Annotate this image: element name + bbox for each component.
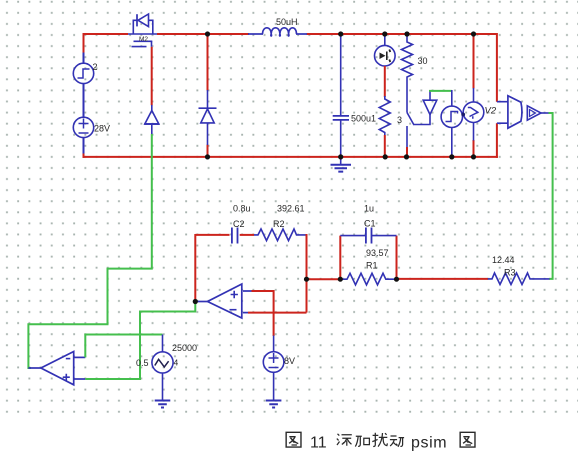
junction dots top rail: [205, 31, 476, 36]
wire carrier to -in (green): [85, 335, 162, 358]
wire gate drive (green): [28, 134, 151, 368]
diode D1 (freewheel): [207, 34, 209, 158]
carrier source 0.5/25000: [152, 335, 173, 400]
switch S1: [407, 80, 414, 148]
on-off switch controller U2: [414, 91, 437, 125]
svg-text:93.57: 93.57: [366, 248, 389, 258]
svg-text:1u: 1u: [364, 204, 374, 214]
current source I2 (disturbance): [473, 34, 475, 158]
op-amp U4 (comparator): [28, 352, 85, 385]
wire junction to R1C1 (red): [307, 278, 341, 280]
wire top rail (red): [84, 33, 497, 35]
wire bottom rail (red): [83, 156, 498, 158]
ground (carrier): [155, 401, 171, 408]
svg-text:R3: R3: [504, 268, 516, 278]
svg-text:392.61: 392.61: [277, 204, 305, 214]
ground (output): [331, 157, 352, 172]
current sensor A1: [375, 34, 396, 66]
voltage sensor V2: [497, 96, 522, 129]
svg-text:V2: V2: [485, 106, 497, 117]
wire U2 gating (green): [429, 90, 452, 92]
svg-text:M2: M2: [139, 36, 148, 43]
svg-text:25000: 25000: [172, 343, 197, 353]
capacitor 500u1: [333, 34, 349, 157]
svg-text:500u1: 500u1: [351, 114, 376, 124]
svg-text:12.44: 12.44: [492, 255, 515, 265]
svg-text:28V: 28V: [94, 124, 110, 134]
svg-text:8V: 8V: [284, 356, 295, 366]
svg-text:4: 4: [174, 358, 179, 368]
wire -in to node (red): [248, 312, 307, 314]
on-off switch controller U1: [144, 105, 159, 134]
wire +in to 8V (red): [252, 291, 274, 336]
svg-text:2: 2: [93, 62, 98, 72]
wire gate (red): [151, 47, 153, 106]
dc source 8V: [263, 336, 284, 400]
svg-text:50uH: 50uH: [276, 17, 298, 27]
capacitor C1 1u: [340, 236, 396, 280]
wire left branch: [83, 33, 85, 158]
wire PI out to +in (green): [85, 302, 195, 380]
svg-text:30: 30: [418, 56, 428, 66]
junction dots bottom rail: [205, 154, 476, 159]
svg-text:R1: R1: [366, 261, 378, 271]
svg-text:C2: C2: [233, 219, 245, 229]
svg-text:11: 11: [310, 435, 327, 452]
resistor R1 93.57: [340, 273, 396, 285]
node V3-I2 touch: [461, 113, 465, 117]
wire feedback right (red): [306, 234, 308, 313]
resistor R2 392.61: [254, 229, 307, 241]
square-wave source V3 (load gating): [441, 90, 462, 157]
MOSFET M2: [128, 14, 157, 47]
svg-text:0.5: 0.5: [136, 358, 149, 368]
inductor L1: [248, 28, 307, 36]
capacitor C2 0.8u: [195, 234, 229, 236]
op-amp U3 (PI): [195, 284, 251, 318]
svg-text:0.8u: 0.8u: [233, 204, 251, 214]
svg-text:3: 3: [397, 115, 402, 125]
gain block: [527, 106, 548, 120]
dc source 28V: [73, 117, 93, 137]
resistor 3 (load): [379, 96, 390, 135]
wire sensor to load: [384, 66, 386, 97]
svg-text:psim: psim: [411, 435, 447, 452]
svg-text:C1: C1: [364, 219, 376, 229]
junction dots control: [193, 277, 399, 305]
wire load to rail: [384, 135, 386, 157]
resistor R3 12.44: [397, 278, 489, 280]
resistor 30 (step load): [402, 34, 413, 80]
ground (8V): [266, 401, 282, 408]
square-wave disturbance source V1: [73, 63, 93, 83]
wire feedback left (red): [194, 234, 196, 302]
svg-text:R2: R2: [273, 219, 285, 229]
caption 图 11 添加扰动 psim 图: [286, 432, 301, 447]
wire sensor output (green): [549, 113, 553, 279]
wire sensor taps (red): [496, 33, 498, 158]
